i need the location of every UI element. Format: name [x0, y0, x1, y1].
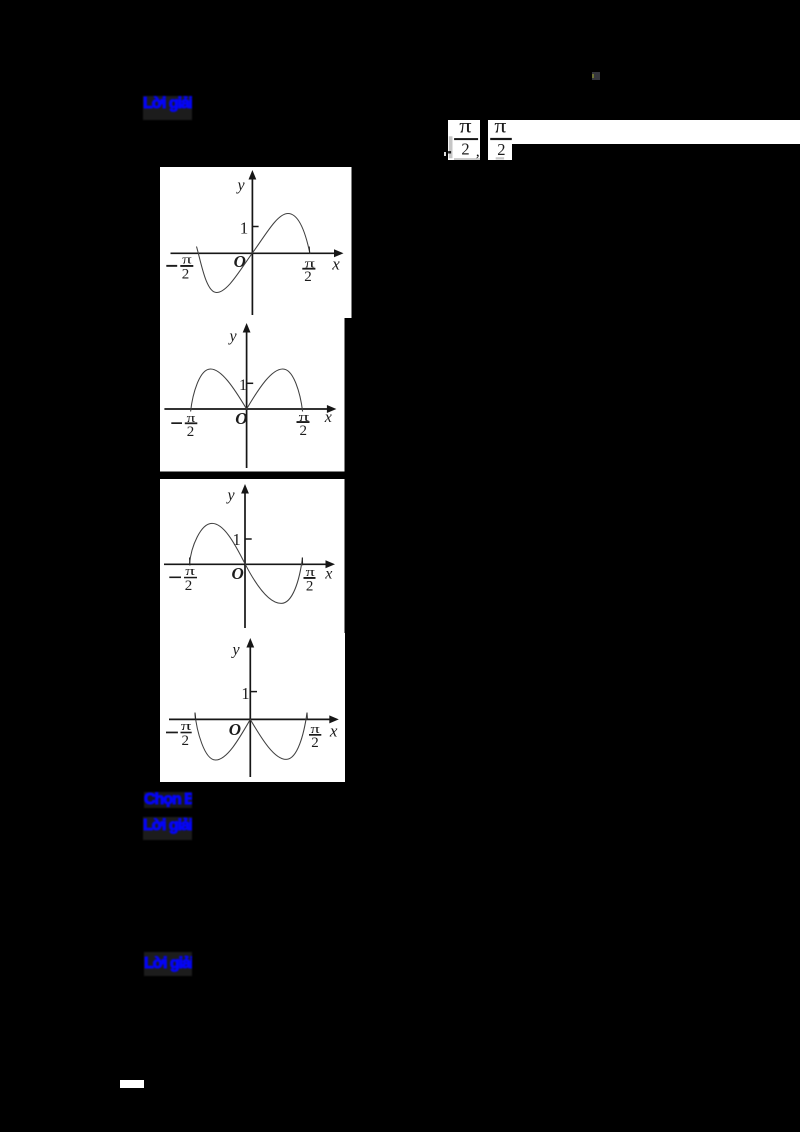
svg-text:x: x [324, 409, 332, 426]
svg-text:x: x [324, 565, 332, 582]
svg-text:1: 1 [240, 219, 249, 238]
svg-text:2: 2 [187, 424, 195, 440]
svg-text:y: y [236, 177, 246, 194]
svg-text:O: O [235, 409, 247, 428]
svg-text:2: 2 [182, 267, 190, 283]
svg-text:2: 2 [461, 139, 469, 158]
svg-text:O: O [234, 252, 246, 271]
svg-text:π: π [306, 564, 316, 579]
svg-text:x: x [329, 721, 338, 740]
svg-text:2: 2 [300, 423, 308, 439]
svg-text:2: 2 [182, 733, 190, 749]
svg-text:π: π [459, 120, 471, 138]
svg-text:2: 2 [304, 269, 312, 285]
svg-text:2: 2 [185, 578, 193, 594]
svg-text:π: π [181, 718, 192, 733]
svg-text:y: y [231, 641, 241, 658]
svg-text:O: O [229, 720, 241, 739]
svg-text:2: 2 [306, 578, 314, 594]
svg-text:x: x [331, 254, 340, 273]
svg-text:,: , [476, 144, 480, 160]
svg-text:π: π [185, 563, 195, 578]
svg-text:π: π [494, 120, 506, 138]
svg-text:π: π [311, 721, 321, 736]
svg-text:y: y [228, 328, 238, 345]
svg-text:O: O [232, 564, 244, 583]
svg-text:1: 1 [233, 530, 241, 549]
svg-text:1: 1 [241, 684, 249, 703]
svg-text:2: 2 [497, 140, 505, 159]
svg-text:y: y [226, 487, 236, 504]
svg-text:π: π [182, 251, 192, 266]
svg-text:1: 1 [239, 377, 247, 394]
svg-text:2: 2 [311, 735, 319, 751]
